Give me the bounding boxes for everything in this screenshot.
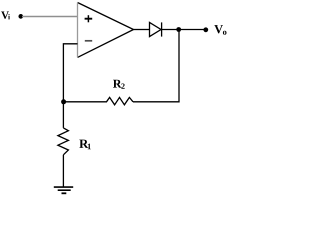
resistor R2	[63, 97, 133, 104]
op-amp minus sign	[85, 40, 92, 42]
wire R1 to ground	[62, 155, 64, 187]
ground	[54, 187, 73, 193]
diode D1	[150, 22, 162, 36]
wire node A down to R1	[62, 102, 64, 128]
node Vo label	[214, 25, 226, 35]
resistor R2 value label	[113, 80, 125, 89]
wire op-amp output to diode	[134, 29, 150, 31]
terminal Vo dot	[203, 27, 208, 32]
wire diode to Vo	[162, 29, 204, 31]
terminal Vi dot	[18, 14, 23, 19]
junction output node dot	[176, 27, 181, 32]
wire Vi to op-amp + input	[22, 16, 78, 18]
wire op-amp inverting input to node A	[63, 44, 77, 102]
node Vi label	[1, 12, 10, 20]
wire output node down to R2	[133, 30, 179, 102]
op-amp U1	[78, 3, 134, 58]
op-amp plus sign	[85, 15, 93, 22]
resistor R1	[58, 128, 69, 155]
node A junction dot	[61, 99, 66, 104]
resistor R1 value label	[79, 140, 91, 150]
